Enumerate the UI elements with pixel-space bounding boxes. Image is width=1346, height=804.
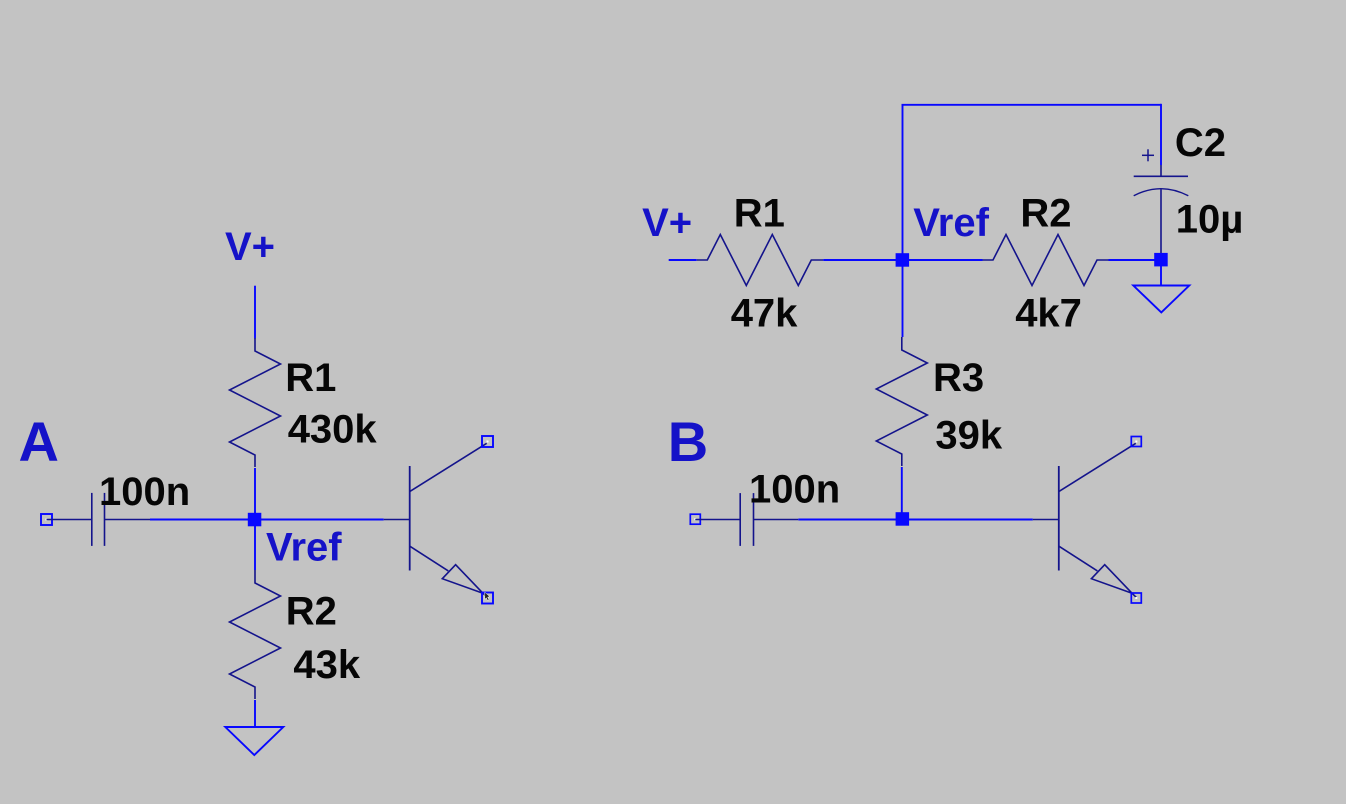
wire top across (B) — [902, 104, 1162, 106]
value 39k — [935, 414, 1002, 458]
resistor R3 (B) — [876, 337, 927, 466]
terminal emitter (B) — [1131, 593, 1141, 603]
transistor Q1 (A) — [384, 443, 488, 597]
svg-text:10µ: 10µ — [1176, 198, 1244, 242]
junction node Vref (A) — [248, 513, 261, 527]
junction node C2/R2/ground (B) — [1154, 253, 1168, 267]
net label V+ (A) — [225, 225, 275, 269]
net label V+ (B) — [642, 201, 692, 245]
svg-text:R3: R3 — [933, 356, 984, 400]
wire V+ lead (B) — [669, 259, 697, 261]
svg-text:R1: R1 — [734, 192, 785, 236]
transistor Q2 (B) — [1033, 443, 1137, 597]
label R1 (B) — [734, 192, 785, 236]
junction node Vref (B) — [896, 253, 910, 267]
circuit label B — [668, 410, 708, 473]
svg-text:4k7: 4k7 — [1015, 291, 1082, 335]
junction node base (B) — [896, 512, 910, 526]
wire R3 to node (B) — [901, 467, 903, 513]
svg-text:43k: 43k — [293, 643, 360, 687]
net label Vref (B) — [913, 201, 989, 245]
terminal input port (B) — [690, 514, 700, 524]
capacitor 100n (B) — [695, 493, 798, 546]
label R3 (B) — [933, 356, 984, 400]
svg-text:47k: 47k — [731, 291, 798, 335]
terminal emitter (A) — [482, 593, 493, 604]
svg-text:A: A — [19, 410, 59, 473]
wire node to transistor base (A) — [259, 519, 384, 521]
terminal collector (B) — [1131, 437, 1141, 447]
wire R2 to node (B) — [1109, 259, 1157, 261]
label R2 (A) — [286, 590, 337, 634]
terminal input port (A) — [41, 514, 52, 525]
svg-text:R2: R2 — [1020, 192, 1071, 236]
label C2 — [1175, 121, 1226, 165]
value 10µ — [1176, 198, 1244, 242]
svg-text:100n: 100n — [99, 470, 190, 514]
label R1 (A) — [285, 356, 336, 400]
svg-text:B: B — [668, 410, 708, 473]
resistor R1 (B) — [697, 235, 824, 286]
svg-text:39k: 39k — [935, 414, 1002, 458]
svg-text:Vref: Vref — [913, 201, 989, 245]
value 100n (B) — [749, 468, 840, 512]
wire capacitor to node (B) — [798, 519, 898, 521]
svg-text:R1: R1 — [285, 356, 336, 400]
svg-text:100n: 100n — [749, 468, 840, 512]
svg-text:V+: V+ — [225, 225, 275, 269]
net label Vref (A) — [266, 525, 342, 569]
wire R1 to node (A) — [254, 468, 256, 514]
value 43k — [293, 643, 360, 687]
wire V+ to R1 (A) — [254, 286, 256, 339]
value 4k7 — [1015, 291, 1082, 335]
svg-text:430k: 430k — [288, 408, 378, 452]
label R2 (B) — [1020, 192, 1071, 236]
svg-text:C2: C2 — [1175, 121, 1226, 165]
svg-text:R2: R2 — [286, 590, 337, 634]
resistor R2 (A) — [230, 570, 281, 699]
wire node up (B) — [902, 105, 904, 254]
svg-text:V+: V+ — [642, 201, 692, 245]
capacitor C2 (B) — [1134, 149, 1189, 253]
capacitor C1 100n (A) — [47, 493, 151, 546]
wire node to ground (B) — [1160, 265, 1162, 286]
resistor R2 (B) — [983, 235, 1110, 286]
value 430k — [288, 408, 378, 452]
wire node to transistor base (B) — [907, 519, 1033, 521]
wire node down to R3 (B) — [902, 266, 904, 337]
ground symbol (B) — [1133, 286, 1189, 313]
wire R2 to ground (A) — [254, 700, 256, 727]
svg-text:Vref: Vref — [266, 525, 342, 569]
wire down to C2 (B) — [1160, 104, 1162, 165]
wire R1 to node Vref (B) — [823, 259, 897, 261]
value 47k — [731, 291, 798, 335]
wire capacitor to node (A) — [150, 519, 250, 521]
value 100n (A) — [99, 470, 190, 514]
mouse cursor — [485, 592, 490, 600]
terminal collector (A) — [482, 436, 493, 447]
ground symbol (A) — [225, 727, 283, 755]
wire node to R2 (A) — [254, 525, 256, 570]
wire node to R2 (B) — [907, 259, 983, 261]
resistor R1 (A) — [230, 338, 281, 467]
circuit label A — [19, 410, 59, 473]
